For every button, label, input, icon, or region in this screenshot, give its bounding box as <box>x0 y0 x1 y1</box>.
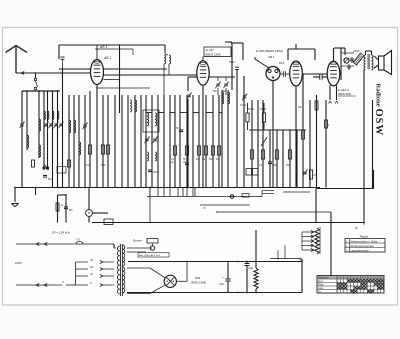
switch S1 <box>34 73 37 91</box>
trimmer C2 <box>43 122 48 129</box>
wire <box>283 191 310 193</box>
wire <box>57 91 59 188</box>
wire <box>151 95 153 188</box>
node A <box>35 72 37 74</box>
resistor R19 <box>302 170 312 179</box>
coil L1 <box>27 135 29 148</box>
svg-text:50nF: 50nF <box>153 170 159 174</box>
resistor R22 <box>0 0 1 1</box>
wire <box>78 95 80 188</box>
output transformer T2 <box>364 54 373 70</box>
wire <box>334 48 346 61</box>
svg-text:1M: 1M <box>286 165 289 167</box>
comb bridges <box>146 112 222 114</box>
resistor R18 <box>301 130 304 139</box>
wire <box>169 95 171 188</box>
value 50k <box>101 163 106 167</box>
wire <box>102 95 104 188</box>
wire <box>114 244 116 248</box>
resistor R10 <box>211 146 214 155</box>
wire <box>84 95 86 188</box>
resistor R21 <box>325 100 331 188</box>
wire <box>288 44 315 60</box>
wire <box>221 90 223 188</box>
tube V4 <box>290 61 303 86</box>
wire <box>192 95 194 188</box>
node <box>38 90 58 92</box>
wire <box>272 81 274 188</box>
wire <box>340 48 342 80</box>
wire <box>52 91 54 188</box>
legend Regler <box>345 235 385 253</box>
tube V5 <box>327 61 340 86</box>
wire <box>289 130 291 188</box>
capacitor C24 <box>229 61 239 70</box>
wire <box>316 170 374 189</box>
svg-text:E 447: E 447 <box>206 48 214 52</box>
wire <box>309 100 311 188</box>
label 5049b <box>260 107 266 111</box>
coil L7 <box>130 100 132 112</box>
bus <box>15 187 320 189</box>
resistor R13 <box>262 103 265 130</box>
wire <box>103 262 114 285</box>
wire <box>262 191 274 197</box>
svg-text:ZF = 128 kHz: ZF = 128 kHz <box>51 231 71 235</box>
wire <box>68 95 70 188</box>
svg-text:8μF: 8μF <box>220 282 225 286</box>
trimmer C4 <box>53 122 58 129</box>
variable capacitor C1 <box>19 122 24 129</box>
coil L16 <box>53 111 54 119</box>
capacitor C13 <box>64 194 73 222</box>
svg-text:8μF: 8μF <box>249 266 254 270</box>
tap arrows <box>89 259 103 287</box>
wire <box>21 91 23 188</box>
bus PSU bottom <box>127 292 302 294</box>
wire <box>140 95 142 188</box>
variable capacitor C9 <box>186 77 196 188</box>
coil L2 <box>39 119 41 131</box>
wire <box>251 100 253 188</box>
wire <box>35 188 37 196</box>
wire <box>366 51 372 55</box>
wire <box>216 211 331 213</box>
coil L5 <box>74 120 76 133</box>
brand Radione <box>374 84 381 107</box>
resistor R25 <box>315 101 318 110</box>
coil L10 <box>228 92 230 104</box>
coil L17 <box>58 111 59 119</box>
wire <box>316 95 318 189</box>
wire <box>212 95 214 188</box>
coil L4 <box>69 120 71 133</box>
label 30 <box>355 227 358 230</box>
wire <box>284 245 286 259</box>
wire <box>301 259 303 293</box>
resistor R9 <box>204 146 207 155</box>
wire <box>26 91 28 150</box>
wire <box>227 90 229 188</box>
speaker LS <box>379 51 392 75</box>
capacitor C15 <box>220 261 231 292</box>
wire <box>96 87 150 89</box>
wire <box>22 90 60 92</box>
wire <box>186 95 188 188</box>
wire <box>121 95 123 188</box>
wire <box>372 100 374 189</box>
svg-text:+: + <box>250 259 252 263</box>
wire <box>58 45 60 59</box>
label box AB <box>138 253 169 258</box>
capacitor C23 <box>43 176 53 182</box>
value r10 <box>209 159 214 161</box>
wire <box>59 68 91 70</box>
tube V3 <box>266 67 280 81</box>
wire <box>363 70 365 225</box>
wire <box>89 91 91 188</box>
svg-text:50pF: 50pF <box>229 61 235 64</box>
wire <box>38 91 40 158</box>
svg-text:240V: 240V <box>352 49 361 53</box>
value r8 <box>195 159 199 161</box>
svg-text:Regler: Regler <box>360 235 370 239</box>
capacitor C11 <box>268 162 272 164</box>
svg-text:220V: 220V <box>14 261 23 265</box>
ground <box>12 188 19 207</box>
svg-text:(RENS 1264): (RENS 1264) <box>205 53 221 57</box>
bus B+ <box>128 261 302 263</box>
wire <box>163 95 165 188</box>
wire <box>183 188 195 197</box>
wire <box>296 130 298 188</box>
label ZF <box>51 231 71 235</box>
coil L3 <box>39 145 41 157</box>
svg-text:AB1, 2(0)V, AB1, 2+4: AB1, 2(0)V, AB1, 2+4 <box>138 254 161 257</box>
wire <box>127 95 129 188</box>
transformer T3 secondary 1 <box>123 245 125 266</box>
wire <box>282 130 284 188</box>
tube V1 <box>91 60 104 85</box>
svg-text:AB 1: AB 1 <box>103 56 111 60</box>
pilot lamp <box>86 188 93 223</box>
wire <box>225 41 232 43</box>
wire <box>269 130 271 188</box>
wire <box>231 43 243 60</box>
transformer T3 secondary 2 <box>123 267 125 293</box>
wire <box>58 194 67 196</box>
resistor R24 <box>254 230 258 293</box>
wire <box>295 86 297 188</box>
tap arrow <box>302 235 314 238</box>
wire <box>202 57 204 61</box>
component box <box>57 167 66 174</box>
capacitor C12 <box>313 74 327 80</box>
wire <box>104 74 197 76</box>
wire <box>43 91 45 169</box>
svg-text:(RES 964): (RES 964) <box>338 92 351 96</box>
capacitor C22 <box>279 63 290 77</box>
IF transformer T1 <box>143 110 159 143</box>
label 506 <box>191 276 206 285</box>
coil L9 <box>222 92 224 104</box>
small box <box>242 194 249 198</box>
tap arrow <box>302 231 314 234</box>
wire <box>104 79 120 81</box>
label E447 box <box>204 47 231 57</box>
coil L8 <box>135 100 137 112</box>
resistor R15 <box>261 150 264 159</box>
rectifier tube V6 <box>164 275 176 287</box>
wire <box>236 70 238 188</box>
resistor R7 <box>185 146 188 155</box>
capacitor C14 <box>245 259 254 292</box>
value r7 <box>183 159 186 164</box>
trimmer C21 <box>223 77 228 95</box>
wire <box>302 73 327 75</box>
wire <box>330 212 332 276</box>
svg-text:T.A: T.A <box>76 238 80 242</box>
resistor R3 <box>88 145 91 154</box>
label 5049a <box>248 107 254 111</box>
label AB1 <box>95 45 133 55</box>
wire <box>315 189 317 223</box>
wire <box>127 268 165 278</box>
wire <box>270 258 303 262</box>
trimmer C6 <box>82 123 87 130</box>
svg-text:AB 1: AB 1 <box>99 45 107 49</box>
wire <box>200 205 250 210</box>
wire <box>179 95 181 188</box>
wire <box>96 45 98 60</box>
label E448 <box>256 49 283 59</box>
tap bracket <box>76 262 89 285</box>
svg-text:5049: 5049 <box>248 107 254 111</box>
svg-text:Wellenschalter m. Skala: Wellenschalter m. Skala <box>351 240 378 243</box>
wire <box>104 68 168 70</box>
tube V2 <box>197 61 209 85</box>
trimmer C20 <box>215 77 220 95</box>
value r11 <box>216 159 219 161</box>
trimmer C5 <box>58 122 63 129</box>
capacitor C7 <box>148 170 152 172</box>
label E443H <box>338 88 356 96</box>
wire <box>202 85 204 187</box>
switch contacts <box>43 164 49 170</box>
wire <box>257 100 259 188</box>
coil L6 <box>79 142 81 155</box>
node <box>14 187 297 189</box>
svg-text:Mittel: Mittel <box>318 284 324 287</box>
label AB1 tube <box>103 56 111 60</box>
svg-text:μF: μF <box>170 162 174 164</box>
transformer T3 primary <box>117 246 119 294</box>
wire <box>301 232 303 250</box>
wire <box>127 285 165 293</box>
svg-text:Wellensch.: Wellensch. <box>318 278 330 280</box>
svg-text:Lang: Lang <box>318 288 324 290</box>
circle node <box>150 246 154 250</box>
connector shelf <box>246 169 258 176</box>
brand OSW <box>373 109 384 137</box>
wire <box>165 45 168 55</box>
wire <box>149 188 151 223</box>
wire <box>152 243 154 246</box>
IF coil pair <box>147 152 157 161</box>
wire <box>73 95 75 188</box>
wire <box>16 72 91 75</box>
wire <box>127 248 152 252</box>
resistor R8 <box>197 146 200 155</box>
wire <box>157 95 159 188</box>
wire <box>96 85 98 188</box>
resistor R6 <box>173 146 176 155</box>
potentiometer P1 <box>261 138 267 147</box>
svg-text:Buchse: Buchse <box>133 239 142 243</box>
svg-text:0,1μF: 0,1μF <box>240 104 247 107</box>
parts table <box>317 276 384 294</box>
wire <box>329 86 338 104</box>
coil L13 <box>169 55 171 75</box>
wire <box>62 68 64 187</box>
resistor R1 <box>32 160 35 167</box>
capacitor C19 <box>61 57 65 69</box>
value 50nF <box>153 170 159 174</box>
coil L14 <box>44 111 45 119</box>
resistor R2 <box>68 160 71 167</box>
svg-text:Gr.: Gr. <box>318 292 321 294</box>
wire <box>231 43 233 90</box>
wire <box>176 262 187 282</box>
svg-text:AB 1: AB 1 <box>267 55 275 59</box>
value 0,1 <box>86 163 90 167</box>
label 240V <box>352 49 361 53</box>
svg-text:50nF: 50nF <box>279 63 285 65</box>
socket box <box>133 239 158 244</box>
value r6 <box>170 159 175 164</box>
svg-text:+: + <box>222 275 224 279</box>
capacitor C17 <box>347 64 351 70</box>
label 220V <box>14 261 23 265</box>
resistor R4 <box>101 145 104 154</box>
wire <box>243 76 245 187</box>
wire <box>277 250 279 259</box>
svg-text:Radione: Radione <box>374 84 381 107</box>
mains wire lower <box>16 280 76 287</box>
wire <box>114 95 116 188</box>
capacitor C10 <box>176 127 183 132</box>
svg-text:(RGN 1064): (RGN 1064) <box>191 281 206 285</box>
value 30k <box>298 107 303 109</box>
trimmer C3 <box>48 122 53 129</box>
wire <box>205 95 207 188</box>
wire <box>59 44 165 46</box>
potentiometer P2 <box>344 58 349 63</box>
resistor R17 <box>288 150 291 159</box>
svg-text:Rückkopplungsregler: Rückkopplungsregler <box>351 245 375 248</box>
component box <box>104 219 113 225</box>
resistor R12 <box>246 103 249 130</box>
coil L15 <box>48 111 49 119</box>
heater rail <box>147 188 262 197</box>
wire <box>92 212 108 214</box>
capacitor C8 <box>185 163 189 165</box>
value r17 <box>286 165 289 167</box>
resistor R23 <box>56 195 64 223</box>
svg-text:50n: 50n <box>69 209 74 212</box>
wire <box>218 95 220 188</box>
mains wire upper <box>16 243 114 246</box>
svg-text:A0: A0 <box>89 259 94 262</box>
svg-text:50k: 50k <box>101 163 106 167</box>
wire <box>255 57 269 68</box>
wire <box>249 129 306 131</box>
resistor R5 <box>106 145 109 154</box>
tap arrow <box>302 240 314 243</box>
resistor R14 <box>250 150 253 159</box>
trimmer C16 <box>242 94 247 101</box>
wire <box>209 76 235 78</box>
wire <box>198 95 200 188</box>
wire <box>302 73 304 187</box>
svg-text:506: 506 <box>195 276 200 280</box>
svg-text:A2: A2 <box>89 273 94 276</box>
value r16 <box>273 165 278 167</box>
wire <box>276 130 278 188</box>
wire <box>47 91 49 169</box>
wire <box>374 56 379 68</box>
svg-text:OSW: OSW <box>373 109 384 137</box>
transformer core <box>120 244 122 296</box>
fuse F1 <box>76 238 83 245</box>
wire <box>119 44 121 113</box>
wire <box>134 95 136 188</box>
resistor R16 <box>275 150 278 159</box>
component dot <box>230 195 234 199</box>
resistor R11 <box>217 146 220 155</box>
wire <box>92 222 364 224</box>
value r9 <box>202 159 206 161</box>
coil L12 <box>164 55 166 95</box>
value r15 <box>259 165 263 167</box>
wire <box>262 100 264 188</box>
capacitor C18 <box>350 57 354 63</box>
choke L11 <box>315 227 320 254</box>
svg-text:E 448 (RENS 1284): E 448 (RENS 1284) <box>256 49 283 53</box>
tap arrow <box>302 244 314 247</box>
svg-text:5049: 5049 <box>260 107 266 111</box>
svg-text:Lautstärkeregler: Lautstärkeregler <box>351 249 369 252</box>
wire <box>145 95 147 188</box>
resistor R20 hatched <box>341 53 364 66</box>
svg-text:0,1: 0,1 <box>86 163 90 167</box>
wire <box>107 95 109 188</box>
value 50n <box>213 91 227 93</box>
value 0,1uF <box>240 104 247 107</box>
wire <box>174 95 176 188</box>
value r19 <box>314 175 318 177</box>
antenna <box>6 46 28 74</box>
tap arrow <box>302 249 314 252</box>
